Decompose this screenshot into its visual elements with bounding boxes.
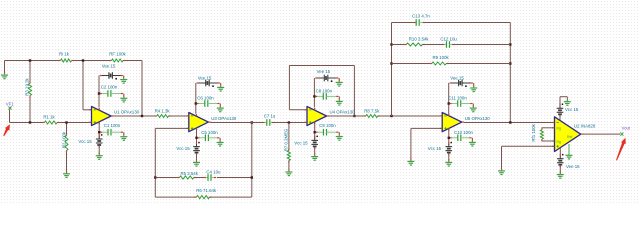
svg-text:C8 100n: C8 100n	[316, 88, 333, 93]
svg-text:C4 10u: C4 10u	[206, 169, 221, 174]
svg-text:R9 100k: R9 100k	[433, 55, 450, 60]
svg-text:C11 100n: C11 100n	[448, 96, 467, 101]
svg-text:C1 100n: C1 100n	[104, 123, 121, 128]
svg-text:U2 INA828: U2 INA828	[574, 123, 596, 128]
svg-text:Vee 15: Vee 15	[450, 76, 464, 81]
svg-text:RF 100k: RF 100k	[109, 52, 126, 57]
svg-text:C5 100n: C5 100n	[201, 130, 218, 135]
svg-text:VF1: VF1	[6, 102, 15, 107]
svg-text:R5 3.54k: R5 3.54k	[181, 171, 199, 176]
svg-text:R10 3.54k: R10 3.54k	[409, 37, 430, 42]
svg-text:Vee 15: Vee 15	[198, 76, 212, 81]
svg-text:R1 1k: R1 1k	[43, 114, 55, 119]
svg-text:R4 1.3k: R4 1.3k	[155, 109, 171, 114]
svg-text:C7 1u: C7 1u	[264, 114, 276, 119]
svg-text:R3 19.2k: R3 19.2k	[25, 77, 30, 95]
svg-text:Ref: Ref	[567, 135, 572, 139]
svg-text:U4 OPAx130: U4 OPAx130	[330, 110, 356, 115]
svg-text:Vee 15: Vee 15	[102, 63, 116, 68]
svg-text:Vcc 15: Vcc 15	[428, 146, 442, 151]
svg-text:Rg: Rg	[557, 140, 561, 144]
svg-text:U5 OPAx130: U5 OPAx130	[465, 116, 491, 121]
svg-text:R2 100k: R2 100k	[61, 131, 66, 148]
svg-text:R8 7.5k: R8 7.5k	[364, 109, 380, 114]
svg-text:Vout: Vout	[621, 126, 630, 131]
svg-text:Rg: Rg	[557, 127, 561, 131]
svg-text:C12 10u: C12 10u	[440, 37, 457, 42]
svg-text:Vee 15: Vee 15	[566, 164, 580, 169]
svg-text:C6 100n: C6 100n	[197, 96, 214, 101]
svg-text:Vcc 15: Vcc 15	[565, 107, 579, 112]
svg-text:Vee 15: Vee 15	[317, 69, 331, 74]
svg-text:Rf1 100k: Rf1 100k	[531, 123, 536, 141]
svg-text:Vcc 15: Vcc 15	[294, 140, 308, 145]
svg-text:Vcc 15: Vcc 15	[176, 146, 190, 151]
svg-text:C9 100n: C9 100n	[319, 123, 336, 128]
svg-text:Ri 1k: Ri 1k	[59, 52, 70, 57]
svg-text:U1 OPAx130: U1 OPAx130	[114, 110, 140, 115]
svg-text:C2 100n: C2 100n	[101, 85, 118, 90]
svg-text:Vcc 15: Vcc 15	[78, 139, 92, 144]
svg-text:U3 OPAx130: U3 OPAx130	[211, 116, 237, 121]
svg-text:C10 100n: C10 100n	[454, 130, 473, 135]
svg-text:C13 4.7n: C13 4.7n	[412, 14, 430, 19]
svg-text:R7 0.2MEG: R7 0.2MEG	[284, 128, 289, 151]
svg-text:R6 71.64k: R6 71.64k	[196, 188, 217, 193]
